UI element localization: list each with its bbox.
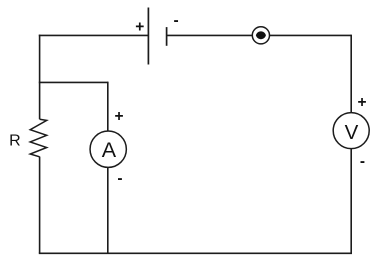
svg-text:V: V [345, 121, 359, 144]
svg-text:-: - [117, 170, 122, 187]
svg-text:-: - [360, 153, 365, 170]
svg-text:+: + [114, 108, 123, 125]
svg-text:R: R [9, 133, 21, 150]
svg-text:-: - [174, 12, 179, 29]
svg-text:A: A [102, 138, 117, 162]
svg-text:+: + [135, 19, 144, 36]
svg-text:+: + [357, 94, 366, 111]
